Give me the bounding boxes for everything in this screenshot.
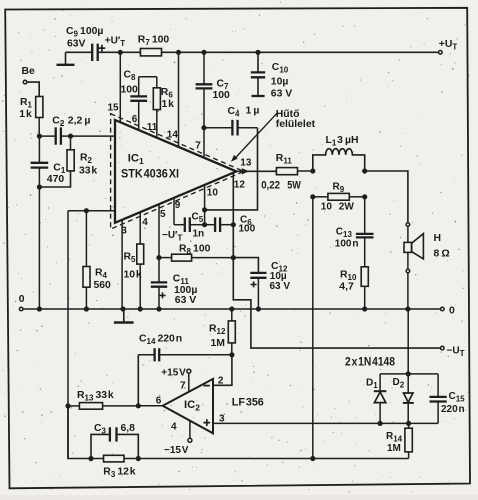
svg-text:0: 0 [449,306,455,317]
svg-text:Be: Be [22,66,36,77]
resistor R9 10 2W [313,182,365,213]
capacitor C5 1n [174,212,205,240]
resistor R10 4.7 [339,267,368,309]
heatsink note Huto felulelet [231,109,316,162]
capacitor C10 10u 63V [251,52,292,99]
svg-text:4,7: 4,7 [339,281,354,292]
input terminal Be [22,66,36,84]
junction: C3 left tap [88,456,93,461]
wire: C14 to IC2 output node [137,355,139,406]
junction: R12/C14/pin 2 node [229,352,234,357]
resistor R2 33k [39,136,97,187]
svg-text:100 n: 100 n [335,238,359,249]
junction: speaker line to 0 rail [405,306,410,311]
terminal 0 (left) [19,294,25,311]
wire: C9 to R7 [98,51,141,53]
junction: C3 right / servo output node [136,456,141,461]
wire: R11 to L1 node [298,170,313,172]
capacitor C11 100u 63V [151,258,198,309]
wire: feedback riser pin2 to R13 [67,211,69,459]
pin 9 [174,198,181,225]
junction: pin 14 supply tap [176,50,181,55]
capacitor C13 100n [335,197,374,267]
resistor R5 10k [124,244,144,309]
junction: IC2 output node [136,403,141,408]
svg-text:220 n: 220 n [441,404,465,415]
junction: C11 to 0 rail [156,306,161,311]
resistor R12 1M [209,309,235,355]
svg-text:2W: 2W [339,201,355,212]
wire: R1 to input node [38,118,40,137]
svg-text:H: H [434,233,442,244]
capacitor C12 10u 63V [233,258,290,309]
pin 6 output [138,395,162,406]
junction: R1/C1/C2 node [37,134,42,139]
resistor R13 33k [68,390,138,409]
junction: R10 to 0 rail [362,306,367,311]
svg-text:100: 100 [213,90,231,101]
svg-text:C14 220 n: C14 220 n [139,333,182,346]
capacitor C9 100u 63V [66,26,105,61]
svg-text:1M: 1M [211,338,225,349]
junction: L1/R9 left node [310,168,315,173]
svg-text:R3 12 k: R3 12 k [103,467,135,480]
pin 15 [108,52,121,122]
svg-text:C9 100µ: C9 100µ [66,26,103,39]
resistor R8 100 [159,243,233,261]
pin 5 [159,205,166,258]
capacitor C7 100 [196,52,230,127]
svg-text:9: 9 [175,200,181,211]
ground (0 rail chassis) [114,309,134,323]
capacitor C8 100 (pin 6) [121,70,157,130]
capacitor C6 100 [205,215,256,235]
resistor R1 1k [19,97,43,121]
svg-text:3: 3 [121,226,127,237]
inductor L1 3uH [313,135,365,171]
wire: pin 10 node to C5/C6 midpoint [204,210,206,225]
supply +15V (pin 7) [161,367,191,391]
junction: D1 to sense line [378,421,383,426]
svg-text:STK 4036 XI: STK 4036 XI [121,167,179,181]
svg-text:8 Ω: 8 Ω [434,248,450,259]
svg-text:R8 100: R8 100 [179,243,211,256]
junction: R5 to 0 rail [138,306,143,311]
svg-text:6: 6 [132,114,138,125]
svg-text:felülelet: felülelet [276,119,316,130]
wire: IC1 pin 2 [68,210,115,212]
junction: R4 tap [84,208,89,213]
svg-text:12: 12 [234,180,246,191]
svg-text:7: 7 [180,380,186,391]
junction: C12 to 0 rail [256,306,261,311]
pin 4 [140,213,148,244]
svg-text:2 x 1N 4148: 2 x 1N 4148 [345,356,396,368]
wire: clamp top rail [380,373,438,375]
resistor R11 0.22 5W [261,153,301,192]
svg-text:6: 6 [156,395,162,406]
junction: -U'T / C11 node [156,255,161,260]
capacitor C1 470 [31,136,66,187]
wire: output to speaker [365,171,408,222]
junction: L1/R9 right node [362,168,367,173]
pin 3 sense line [213,413,438,424]
svg-text:10: 10 [207,187,219,198]
svg-text:7: 7 [195,141,201,152]
diode D2 1N4148 [393,377,414,423]
svg-text:15: 15 [108,102,120,113]
svg-text:1 k: 1 k [162,99,175,110]
junction: R8/C12 tap on -V line [231,255,236,260]
svg-text:13: 13 [240,157,252,168]
svg-text:100: 100 [121,85,139,96]
svg-text:−15 V: −15 V [164,445,189,456]
ground (C9 return) [57,52,75,65]
op-amp IC2 LF356 [163,379,264,433]
svg-text:R13 33 k: R13 33 k [77,390,114,403]
wire: ground to C9 [66,51,93,53]
junction: R12 to 0 rail [229,306,234,311]
svg-text:63 V: 63 V [175,295,196,306]
junction: pin 7 / C4 node [201,125,206,130]
svg-text:63 V: 63 V [270,281,291,292]
pin 10 [205,185,219,210]
svg-text:LF 356: LF 356 [232,396,264,408]
svg-text:560: 560 [94,280,112,291]
junction: C1 bottom to 0 rail [37,306,42,311]
wire: R7 to +UT terminal [162,51,439,53]
svg-text:63V: 63V [67,38,86,49]
svg-text:470: 470 [47,174,65,185]
terminal +UT [439,39,458,54]
capacitor C2 2.2u [39,116,90,145]
junction: node +U-prime-T [118,50,123,55]
junction: pin 10 node [202,207,207,212]
junction: D2/R14 to sense line [406,421,411,426]
svg-text:10µ: 10µ [271,76,289,87]
svg-text:R7 100: R7 100 [138,35,170,48]
svg-text:33 k: 33 k [79,165,97,176]
svg-text:1n: 1n [193,228,205,239]
junction: R4 to 0 rail [84,306,89,311]
junction: C1/R2 bottom node [37,184,42,189]
svg-text:10: 10 [321,201,333,212]
svg-text:5W: 5W [287,179,301,191]
svg-text:63 V: 63 V [271,88,292,99]
svg-text:1M: 1M [387,443,401,454]
svg-text:14: 14 [167,129,179,140]
terminal -UT [441,346,465,359]
wire: output sense riser to servo [312,197,314,459]
wire: servo feedback line to R14 [124,458,409,460]
junction: pin 3 / chassis ground on 0 rail [120,306,125,311]
wire: Be to R1 [27,82,39,96]
svg-text:2,2 µ: 2,2 µ [68,116,91,127]
svg-text:0,22: 0,22 [261,179,280,191]
wire: pin 1 input [71,135,116,137]
wire: pin 12 -V line to -UT [233,173,440,348]
svg-text:1 µ: 1 µ [246,106,260,117]
junction: sense riser to servo line [310,456,315,461]
svg-text:4: 4 [171,421,177,432]
speaker H 8ohm [404,223,450,309]
resistor R14 1M [386,423,412,458]
svg-text:0: 0 [19,294,25,305]
diode D1 1N4148 [366,374,386,424]
resistor R3 12k [103,455,135,479]
svg-text:3: 3 [219,413,225,424]
pin 14 [167,52,179,146]
junction: R13 left node [65,403,70,408]
op-amp IC1 STK4036XI power amplifier [111,114,244,229]
svg-text:4: 4 [142,217,148,228]
supply -15V (pin 4) [164,421,192,456]
pin 13 output with arrow [236,157,276,174]
resistor R6 1k (pin 11) [153,77,174,138]
capacitor C4 1u [204,106,259,136]
wire: 0 rail to D2 [407,309,409,393]
svg-text:6,8: 6,8 [121,423,136,434]
junction: C7 supply tap [201,50,206,55]
junction: C6 to -V line [231,222,236,227]
pin 3 [121,220,127,309]
capacitor C3 6.8 [91,423,138,459]
svg-text:100: 100 [239,223,256,234]
capacitor C15 220n [430,374,466,424]
wire: C1 bottom to 0 rail [38,187,40,309]
junction: C5/C6 midpoint [202,222,207,227]
wire: 0 rail [23,308,440,310]
junction: C10 supply tap [255,50,260,55]
wire: node to IC2 pin 2 [213,355,232,386]
pin 7 [195,128,204,158]
resistor R7 100 [138,35,170,56]
terminal 0 (right) [441,306,456,317]
svg-text:5: 5 [160,209,166,220]
wire: bootstrap C4 to pin 10 node [205,128,258,210]
junction: IC1 pin 1 input node [68,134,73,139]
resistor R4 560 [83,211,111,309]
capacitor C14 220n [138,333,232,361]
svg-text:10 k: 10 k [124,270,142,281]
wire: R13 left to R3 [68,406,104,459]
svg-text:+15 V: +15 V [161,367,186,378]
svg-text:1 k: 1 k [19,109,32,120]
svg-text:2: 2 [218,375,224,386]
svg-text:L1 3 µH: L1 3 µH [326,135,359,148]
junction: D2 anode to clamp rail [406,371,411,376]
